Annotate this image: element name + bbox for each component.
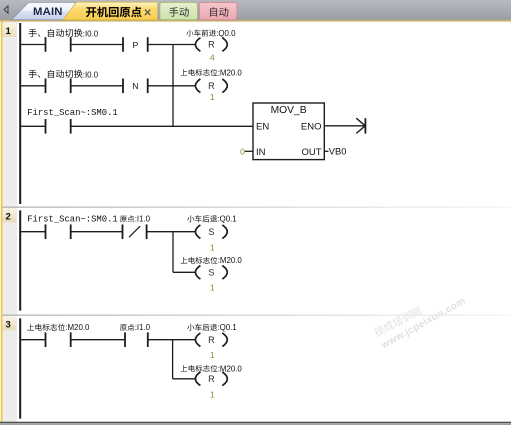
svg-text:First_Scan~:SM0.1: First_Scan~:SM0.1: [27, 108, 118, 118]
coil R 上电标志位 M20.0 (net1): [195, 79, 200, 93]
bottom border line: [0, 422, 511, 423]
svg-text:1: 1: [210, 350, 215, 360]
net3 branch vertical: [172, 340, 174, 379]
svg-text::I1.0: :I1.0: [135, 323, 151, 332]
label 上电标志位:M20.0 (net1): [181, 69, 188, 75]
svg-text::I1.0: :I1.0: [135, 215, 151, 224]
contact NC 原点 I1.0: [122, 224, 124, 239]
contact First_Scan SM0.1 (net1): [45, 119, 47, 134]
watermark 技成培训网 www.jcpeixun.com: [373, 306, 422, 337]
label 上电标志位:M20.0 (net3 contact): [27, 324, 34, 331]
contact N negative edge: [122, 79, 124, 94]
net3 row wire: [20, 339, 45, 341]
net1 left power rail: [19, 23, 21, 204]
coil S 小车后退 Q0.1: [195, 225, 200, 239]
svg-text:2: 2: [6, 211, 11, 222]
network 2 number box: [3, 208, 17, 222]
contact NO 原点 I1.0 (net3): [124, 332, 126, 347]
svg-text:R: R: [208, 374, 215, 384]
contact 手、自动切换 I0.0 (row1): [45, 37, 47, 52]
network 3 number box: [3, 316, 17, 330]
net2 left power rail: [19, 210, 21, 310]
svg-text:1: 1: [210, 282, 215, 292]
contact First_Scan SM0.1 (net2): [45, 224, 47, 239]
gutter hatch column: [4, 22, 17, 422]
net1 row2 wire segments: [20, 85, 45, 87]
coil R 小车前进 Q0.0: [195, 38, 200, 52]
svg-text::M20.0: :M20.0: [218, 364, 243, 373]
svg-text:OUT: OUT: [301, 147, 321, 158]
svg-text:R: R: [208, 81, 215, 91]
svg-text::M20.0: :M20.0: [65, 323, 90, 332]
label 原点:I1.0 (net3): [120, 324, 127, 330]
label 手、自动切换:I0.0 (row2): [29, 70, 37, 78]
svg-text::Q0.0: :Q0.0: [216, 29, 236, 38]
contact 手、自动切换 I0.0 (row2): [45, 79, 47, 94]
coil R 上电标志位 M20.0 (net3): [195, 372, 200, 386]
label 上电标志位:M20.0 (net2): [181, 257, 188, 263]
tab bar gold bottom strip: [0, 20, 511, 22]
label 手、自动切换:I0.0 (row1): [29, 29, 37, 37]
svg-text:S: S: [208, 227, 214, 237]
svg-text:0: 0: [240, 147, 245, 157]
contact P positive edge: [122, 37, 124, 52]
contact 上电标志位 M20.0 (net3): [45, 332, 47, 347]
svg-text:1: 1: [210, 92, 215, 102]
tab MAIN: [12, 2, 76, 19]
junction vertical net1: [172, 45, 174, 127]
network 1 number box: [3, 23, 17, 37]
svg-text:R: R: [208, 335, 215, 345]
svg-text:ENO: ENO: [301, 121, 322, 132]
tab bar background: [0, 0, 511, 20]
net3 left power rail: [19, 318, 21, 418]
ENO terminal bar: [364, 118, 366, 133]
tab scroll-left arrow: [4, 6, 8, 13]
svg-text:MOV_B: MOV_B: [271, 105, 307, 116]
svg-text:EN: EN: [256, 121, 269, 132]
coil R 小车后退 Q0.1 (net3): [195, 333, 200, 347]
svg-text:3: 3: [6, 319, 11, 330]
MOV_B function box: [253, 103, 324, 160]
svg-text:First_Scan~:SM0.1: First_Scan~:SM0.1: [27, 215, 118, 225]
ENO open arrow: [356, 118, 365, 126]
label 小车后退:Q0.1 (net3): [187, 324, 194, 331]
net2 branch wire: [173, 271, 196, 273]
label 小车前进:Q0.0: [186, 30, 193, 37]
tab 手动: [160, 2, 198, 19]
svg-text::I0.0: :I0.0: [83, 29, 99, 38]
svg-text:4: 4: [210, 53, 215, 63]
gutter yellow stripe: [0, 22, 1, 422]
svg-text:IN: IN: [256, 147, 266, 158]
label 小车后退:Q0.1 (net2): [187, 215, 194, 222]
svg-text:S: S: [208, 268, 214, 278]
svg-text::Q0.1: :Q0.1: [217, 215, 236, 224]
svg-text:1: 1: [210, 389, 215, 399]
svg-text::M20.0: :M20.0: [218, 256, 243, 265]
OUT tick: [324, 150, 328, 152]
svg-text:VB0: VB0: [329, 147, 347, 157]
network separator 1: [3, 207, 511, 208]
svg-text:1: 1: [6, 26, 12, 37]
net2 row wire: [20, 231, 45, 233]
tab 自动: [199, 2, 237, 19]
net1 row3 wire: [20, 125, 45, 127]
ENO output wire: [324, 125, 365, 127]
svg-text:N: N: [132, 81, 138, 91]
svg-text:R: R: [208, 40, 215, 50]
svg-text:P: P: [132, 40, 138, 50]
net3 branch wire: [173, 378, 196, 380]
tab close button x: [145, 10, 150, 15]
svg-text:1: 1: [210, 242, 215, 252]
svg-text::M20.0: :M20.0: [218, 68, 243, 77]
net2 branch vertical: [172, 232, 174, 273]
label 原点:I1.0 (net2): [120, 216, 127, 222]
label 上电标志位:M20.0 (net3 coil2): [181, 365, 188, 371]
IN input tick: [245, 150, 253, 152]
coil S 上电标志位 M20.0 (net2): [195, 266, 200, 280]
svg-text:MAIN: MAIN: [33, 6, 63, 18]
tab active 开机回原点: [63, 2, 158, 20]
svg-text::Q0.1: :Q0.1: [217, 323, 236, 332]
network separator 2: [3, 315, 511, 316]
svg-text::I0.0: :I0.0: [83, 70, 99, 79]
net1 row1 wire segments: [20, 44, 45, 46]
